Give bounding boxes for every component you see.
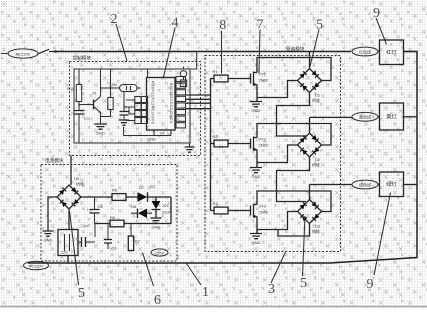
capacitor C3 beside box [78, 241, 95, 243]
svg-text:20uF: 20uF [162, 210, 172, 215]
wire drain [257, 191, 331, 212]
resistor R1 [214, 75, 228, 82]
AC source label oval [8, 49, 38, 58]
diode D8 [138, 209, 147, 219]
numeral 1 leader [187, 264, 202, 286]
control inner solid box [74, 69, 190, 143]
svg-text:GND: GND [152, 225, 161, 230]
svg-text:R2: R2 [213, 134, 219, 139]
wire right vertical return [28, 52, 417, 264]
svg-text:红灯: 红灯 [386, 48, 396, 56]
svg-text:VT1: VT1 [259, 72, 267, 77]
switch S1 [38, 49, 56, 54]
driver module dashed box [205, 56, 341, 252]
resistor R11 [110, 69, 112, 98]
rail A [81, 196, 112, 198]
wire top bus (AC live) [56, 51, 352, 53]
wire bridge top tap [309, 185, 311, 200]
wire bridge left to ground [48, 197, 57, 231]
svg-text:D6: D6 [74, 176, 80, 181]
wire bridge bottom vertex [277, 93, 310, 137]
svg-text:VT3: VT3 [259, 204, 267, 209]
wire ground rail to IC bottom [124, 130, 172, 136]
numeral 8 leader [221, 31, 223, 74]
svg-text:GND: GND [147, 137, 156, 142]
svg-text:C6: C6 [112, 246, 118, 251]
svg-text:2N60: 2N60 [259, 143, 269, 148]
svg-text:C4: C4 [98, 204, 104, 209]
wire oval to lamp box [378, 184, 380, 186]
svg-text:黄色线: 黄色线 [359, 114, 371, 120]
control module dashed box [70, 62, 201, 156]
svg-text:GND: GND [252, 240, 261, 245]
svg-text:3: 3 [268, 282, 275, 297]
wire gate feed row 1 [211, 78, 215, 80]
svg-text:电源模块: 电源模块 [45, 157, 64, 164]
numeral 9 leader [376, 18, 387, 45]
svg-text:D8: D8 [131, 204, 137, 209]
small box under circle [180, 80, 186, 87]
svg-text:VT2: VT2 [259, 137, 267, 142]
ground row 1 [250, 102, 262, 107]
IC right pin pads [176, 77, 186, 82]
svg-text:2: 2 [111, 12, 118, 27]
IC U1 [147, 78, 176, 131]
svg-text:D7: D7 [139, 185, 145, 190]
svg-text:R7: R7 [135, 239, 141, 244]
bridge rectifier D1 [298, 69, 322, 93]
zener ZD2 [155, 197, 157, 201]
numeral 4 leader [164, 28, 176, 78]
wire bridge top tap [309, 117, 311, 133]
svg-text:1uF: 1uF [83, 223, 90, 228]
wires to left pads [124, 100, 135, 121]
wire oval to lamp box [378, 51, 380, 53]
wire source to ground [256, 150, 258, 168]
svg-text:5: 5 [300, 276, 307, 291]
svg-text:89C2051OSCGNDV: 89C2051OSCGNDV [169, 83, 174, 124]
resistor R5 [112, 194, 126, 201]
resistor R3 [214, 207, 228, 214]
wire bridge left vertex to source [257, 212, 298, 230]
capacitor C6 [107, 224, 109, 240]
wire bridge bottom to filter box [68, 209, 70, 230]
diode D7 [138, 192, 148, 202]
svg-text:绿色线: 绿色线 [359, 181, 371, 187]
wire emitter down [100, 113, 102, 125]
indicator circle component top right [180, 71, 186, 77]
svg-text:12M: 12M [109, 82, 117, 87]
capacitor C2 and ground under crystal [123, 92, 125, 112]
wire drain [257, 124, 331, 146]
numeral 7 leader [259, 30, 260, 74]
numeral 6 leader [143, 253, 154, 287]
svg-text:R3: R3 [213, 201, 219, 206]
svg-text:XT: XT [160, 131, 166, 136]
resistor R2 [214, 140, 228, 147]
svg-text:GND: GND [252, 108, 261, 113]
bridge rectifier D3 [298, 200, 322, 224]
wire IC top pin to rail [147, 69, 149, 78]
capacitor C4 [94, 197, 96, 210]
svg-text:黄灯: 黄灯 [386, 113, 396, 121]
wire bridge top tap [309, 52, 311, 69]
svg-text:220: 220 [61, 250, 68, 255]
wire gate [228, 143, 251, 145]
IC left pin pads [135, 97, 141, 103]
MOSFET VT2 [250, 139, 252, 149]
resistor R6 [110, 220, 124, 227]
AC neutral label oval bottom left [24, 261, 49, 269]
crystal Y1 [120, 85, 138, 92]
svg-text:GND: GND [96, 131, 105, 136]
lamp oval 1 [352, 47, 378, 56]
svg-text:P10P11P12P13INT0: P10P11P12P13INT0 [151, 81, 156, 125]
numeral 3 leader [271, 252, 286, 283]
svg-text:5: 5 [316, 18, 323, 33]
bridge rectifier D2 [298, 133, 322, 157]
wire bridge bottom vertex [278, 224, 310, 237]
wire gate feed row 2 [211, 143, 215, 145]
wire stub left edge [1, 53, 8, 55]
svg-text:ZD: ZD [150, 184, 155, 189]
wire bus tap into control module [190, 52, 197, 70]
wire gate [228, 78, 251, 80]
numeral 2 leader [116, 24, 127, 61]
lamp box 1 [380, 40, 404, 65]
svg-text:控制模块: 控制模块 [73, 55, 92, 62]
svg-text:GND: GND [252, 174, 261, 179]
svg-text:R1: R1 [213, 69, 219, 74]
svg-text:D1: D1 [315, 93, 321, 98]
wire collector to top rail [100, 69, 102, 97]
ground at control box corner [189, 143, 191, 147]
svg-text:红色线: 红色线 [359, 48, 371, 54]
wire drain [257, 58, 331, 81]
svg-text:9: 9 [373, 6, 380, 21]
wire bridge bottom vertex [277, 157, 310, 202]
gate bus vertical [210, 79, 212, 211]
output oval in power box [151, 249, 168, 256]
bridge rectifier D6 [57, 185, 81, 209]
svg-text:8: 8 [219, 18, 226, 33]
numeral 5 leader [303, 216, 306, 276]
wire oval to lamp box [378, 116, 380, 118]
wire bridge right to lamp oval row 3 [310, 184, 353, 186]
svg-text:2N60: 2N60 [259, 210, 269, 215]
svg-text:C1: C1 [84, 116, 90, 121]
svg-text:AC220V: AC220V [16, 51, 31, 56]
resistor R10 [78, 69, 80, 85]
ground row 2 [250, 168, 262, 173]
power module dashed box [41, 165, 177, 262]
wire bridge left vertex to source [257, 81, 298, 98]
svg-text:5: 5 [78, 286, 85, 301]
bottom scan edge line [0, 306, 427, 308]
wire bridge left vertex to source [257, 145, 298, 163]
wire gate [228, 210, 251, 212]
filter/transformer box T1 [58, 230, 78, 256]
wire lamp box to right bus [404, 184, 418, 186]
svg-text:220V: 220V [155, 250, 165, 255]
svg-text:4: 4 [172, 16, 179, 31]
svg-text:桥堆: 桥堆 [312, 97, 320, 103]
wire gate feed row 3 [211, 210, 215, 212]
MOSFET VT3 [250, 206, 252, 216]
lamp oval 3 [352, 180, 378, 189]
svg-text:R10: R10 [67, 86, 75, 91]
svg-text:10V: 10V [162, 203, 169, 208]
resistor R7 [130, 224, 132, 237]
svg-text:桥堆: 桥堆 [312, 162, 320, 168]
right vertical in power box [170, 197, 172, 224]
svg-text:绿灯: 绿灯 [386, 180, 396, 188]
svg-text:1: 1 [202, 285, 209, 300]
svg-text:GND: GND [44, 238, 53, 243]
capacitor C1 [78, 102, 80, 111]
svg-text:D3: D3 [315, 224, 321, 229]
wire filter box to bottom bus [67, 256, 69, 264]
svg-text:V1: V1 [92, 91, 98, 96]
numeral 5 leader [310, 30, 319, 67]
svg-text:AC220V: AC220V [29, 263, 44, 268]
numeral 9 leader [374, 193, 391, 276]
numeral 5 leader [70, 211, 79, 285]
lamp box 3 [380, 172, 404, 197]
lamp oval 2 [352, 112, 378, 121]
wire source to ground [256, 85, 258, 102]
svg-text:2N60: 2N60 [259, 78, 269, 83]
wire source to ground [256, 217, 258, 234]
svg-text:R5: R5 [112, 188, 118, 193]
wires IC outputs to gate bus [186, 95, 211, 109]
wire lamp box to right bus [404, 51, 418, 53]
svg-text:桥堆: 桥堆 [312, 228, 320, 234]
svg-text:7: 7 [257, 18, 264, 33]
wire bridge right to lamp oval row 2 [310, 116, 353, 118]
rail B [95, 223, 171, 225]
ground under transistor [94, 124, 107, 129]
wire lamp box to right bus [404, 116, 418, 118]
lamp box 2 [380, 103, 404, 130]
svg-text:R6: R6 [110, 215, 116, 220]
wire from control box down to bridge D6 [70, 156, 72, 186]
svg-text:驱动模块: 驱动模块 [286, 46, 305, 53]
ground row 3 [250, 234, 262, 239]
svg-text:D2: D2 [315, 157, 321, 162]
svg-text:桥堆: 桥堆 [76, 181, 84, 187]
svg-text:9: 9 [367, 277, 374, 292]
transistor V1 [79, 104, 94, 106]
MOSFET VT1 [250, 74, 252, 84]
